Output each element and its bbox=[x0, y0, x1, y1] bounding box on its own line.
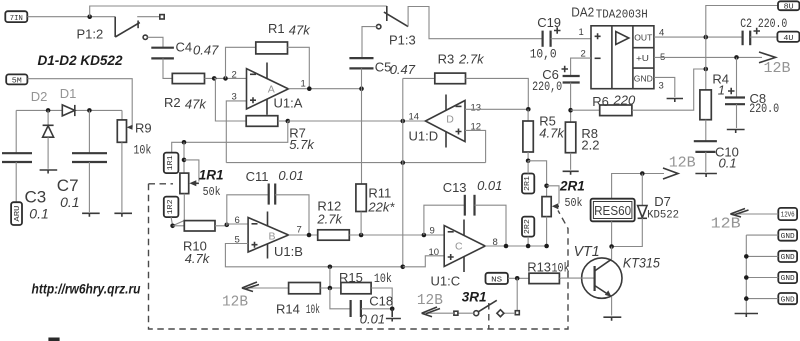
svg-text:0.47: 0.47 bbox=[193, 43, 219, 58]
ground DA2 pin3 bbox=[667, 99, 683, 103]
svg-text:10k: 10k bbox=[133, 143, 151, 158]
svg-text:1R1: 1R1 bbox=[199, 168, 224, 183]
bias rail pin3-pin12 bbox=[226, 162, 485, 164]
connector 5M bbox=[6, 74, 27, 85]
resistor R3 bbox=[403, 73, 529, 109]
svg-text:4.7k: 4.7k bbox=[185, 251, 211, 266]
wire D1 node rail bbox=[16, 109, 62, 111]
svg-text:DA2: DA2 bbox=[571, 5, 594, 20]
svg-text:12В: 12В bbox=[417, 292, 443, 309]
capacitor C13 bbox=[424, 195, 506, 246]
connector 2R2 bbox=[522, 217, 534, 237]
resistor R5 bbox=[523, 109, 533, 161]
resistor R13 bbox=[529, 273, 561, 283]
svg-text:R11: R11 bbox=[368, 186, 391, 201]
polarity + (C8) bbox=[728, 88, 735, 94]
wire pin2 to R7 bbox=[214, 78, 246, 121]
capacitor C8 bbox=[725, 57, 745, 128]
svg-text:12В: 12В bbox=[764, 60, 791, 77]
connector GND 3 bbox=[778, 272, 797, 283]
node pin13 R5 bbox=[526, 107, 531, 112]
svg-text:GND: GND bbox=[781, 233, 795, 241]
svg-text:U1:D: U1:D bbox=[409, 129, 439, 144]
svg-text:10k: 10k bbox=[552, 262, 570, 276]
svg-text:6: 6 bbox=[235, 215, 240, 226]
svg-text:R9: R9 bbox=[135, 121, 152, 136]
resistor R2 bbox=[172, 73, 246, 83]
svg-text:P1:2: P1:2 bbox=[77, 27, 104, 42]
node GND rail 3 bbox=[744, 275, 749, 280]
node U1:B out C11 bbox=[307, 233, 312, 238]
wire 8U rail bbox=[706, 6, 778, 90]
svg-text:1: 1 bbox=[718, 83, 725, 98]
wire pot bottom to R10 bbox=[173, 194, 185, 226]
resistor R7 bbox=[246, 116, 288, 127]
svg-text:5M: 5M bbox=[12, 78, 22, 86]
wire 1R2 to R10 node bbox=[171, 217, 173, 226]
op-amp U1:A bbox=[247, 63, 289, 115]
wire R5 to pot 2R1 bbox=[528, 161, 547, 197]
svg-text:1: 1 bbox=[579, 27, 584, 38]
ground under R8 bbox=[563, 171, 579, 175]
svg-text:9: 9 bbox=[430, 226, 435, 237]
potentiometer 1R1 bbox=[180, 173, 199, 194]
connector 12V6 bbox=[778, 208, 797, 220]
svg-text:2R2: 2R2 bbox=[524, 219, 532, 234]
connector ARU bbox=[11, 202, 22, 225]
wire pin6 bbox=[227, 223, 248, 225]
svg-text:3: 3 bbox=[659, 81, 664, 92]
svg-text:50k: 50k bbox=[565, 196, 583, 210]
svg-text:R1: R1 bbox=[268, 21, 285, 36]
svg-text:2.2: 2.2 bbox=[581, 138, 599, 153]
svg-text:C11: C11 bbox=[246, 169, 269, 184]
node out pot2R1 bbox=[544, 244, 549, 249]
wire R13 node to jack bbox=[516, 278, 518, 310]
svg-text:U1:A: U1:A bbox=[274, 96, 303, 111]
svg-text:R6: R6 bbox=[592, 94, 609, 109]
svg-text:C4: C4 bbox=[176, 40, 193, 55]
node D7 top bbox=[640, 171, 645, 176]
svg-text:D7: D7 bbox=[654, 194, 671, 209]
wire P1:2 to C4 bbox=[148, 37, 164, 47]
svg-text:14: 14 bbox=[409, 112, 420, 123]
svg-text:0.01: 0.01 bbox=[360, 312, 385, 327]
wire pin13 to R5 bbox=[465, 108, 528, 110]
node R14/R15 bbox=[328, 286, 333, 291]
capacitor C11 bbox=[227, 184, 309, 236]
connector GND 1 bbox=[778, 230, 797, 241]
svg-text:220.0: 220.0 bbox=[749, 102, 779, 116]
svg-text:0.1: 0.1 bbox=[29, 206, 48, 222]
node pin6 bbox=[225, 223, 230, 228]
wire P1:3 contact to C5 bbox=[362, 27, 377, 58]
svg-text:3: 3 bbox=[232, 92, 237, 103]
arrow 12V to R14 bbox=[242, 282, 289, 292]
arrow 12V (RES60 rail) bbox=[663, 168, 678, 179]
svg-text:C: C bbox=[455, 241, 463, 253]
node R13 left bbox=[515, 276, 520, 281]
node pin2 left bbox=[212, 76, 217, 81]
ground under C10 bbox=[695, 174, 717, 178]
svg-text:ARU: ARU bbox=[14, 206, 22, 222]
resistor R10 bbox=[173, 221, 227, 231]
resistor R15 bbox=[341, 283, 392, 309]
connector 1R1 bbox=[164, 153, 179, 174]
svg-text:47k: 47k bbox=[289, 23, 311, 38]
svg-text:B: B bbox=[269, 231, 276, 243]
IC DA2 TDA2003H bbox=[591, 26, 654, 89]
svg-text:2: 2 bbox=[232, 70, 237, 81]
wire pin3 GND bbox=[654, 77, 675, 97]
svg-text:RES60: RES60 bbox=[594, 204, 631, 218]
svg-text:GND: GND bbox=[781, 275, 795, 283]
svg-text:A: A bbox=[268, 84, 275, 96]
svg-text:12V6: 12V6 bbox=[781, 212, 795, 220]
svg-text:R14: R14 bbox=[276, 302, 300, 317]
svg-text:1: 1 bbox=[301, 79, 306, 90]
node C6 R6 bbox=[568, 108, 573, 113]
switch P1:3 bbox=[377, 6, 409, 29]
connector 2R1 bbox=[522, 174, 534, 194]
svg-text:+U: +U bbox=[636, 53, 649, 63]
svg-text:R2: R2 bbox=[164, 95, 181, 110]
resistor R14 bbox=[289, 283, 321, 294]
node C18 right bbox=[390, 307, 395, 312]
svg-text:D1-D2 KD522: D1-D2 KD522 bbox=[38, 53, 123, 68]
ground under D2 bbox=[40, 170, 58, 174]
wire NS to R13 bbox=[508, 277, 529, 279]
node U1:A output R1 bbox=[307, 86, 312, 91]
wire R7 down to 1R1 rail bbox=[172, 121, 288, 153]
capacitor C10 bbox=[694, 141, 717, 172]
diode D1 bbox=[62, 105, 75, 116]
node GND rail 4 bbox=[744, 296, 749, 301]
dashed block border bbox=[149, 184, 569, 329]
connector 1R2 bbox=[164, 197, 179, 218]
svg-text:13: 13 bbox=[471, 103, 482, 114]
svg-text:C3: C3 bbox=[25, 188, 47, 207]
svg-text:5.7k: 5.7k bbox=[289, 137, 315, 152]
svg-text:GND: GND bbox=[781, 254, 795, 262]
svg-text:2.7k: 2.7k bbox=[458, 52, 485, 67]
arrow 12V (12V6) bbox=[730, 209, 778, 218]
op-amp U1:C bbox=[444, 220, 485, 273]
svg-text:8U: 8U bbox=[784, 4, 794, 12]
wire R5 to 2R1 box bbox=[527, 161, 529, 174]
resistor R6 bbox=[571, 69, 706, 116]
node 1R1 top bbox=[182, 140, 187, 145]
node R12 right R11 bbox=[359, 233, 364, 238]
svg-text:U1:B: U1:B bbox=[274, 244, 303, 259]
svg-text:GND: GND bbox=[781, 296, 795, 304]
svg-text:D1: D1 bbox=[60, 86, 77, 101]
svg-text:TDA2003H: TDA2003H bbox=[596, 8, 648, 22]
wire U1:C output rail bbox=[485, 245, 546, 247]
wire pot 2R1 to out rail bbox=[546, 217, 548, 246]
capacitor C4 bbox=[151, 48, 174, 59]
op-amp U1:B bbox=[248, 212, 288, 259]
capacitor C6 bbox=[563, 76, 580, 122]
connector 7IN bbox=[5, 11, 27, 23]
svg-text:12В: 12В bbox=[222, 294, 248, 311]
svg-text:P1:3: P1:3 bbox=[389, 33, 416, 48]
svg-text:12В: 12В bbox=[711, 216, 741, 233]
arrow 12V (+U) bbox=[759, 52, 776, 63]
connector 8U bbox=[778, 1, 799, 11]
svg-text:0.01: 0.01 bbox=[477, 178, 502, 193]
capacitor C18 bbox=[330, 288, 392, 317]
svg-text:4U: 4U bbox=[783, 35, 793, 43]
resistor R1 bbox=[226, 42, 310, 89]
node out C13 bbox=[504, 244, 509, 249]
wire U1:A output bbox=[288, 88, 361, 90]
wire pin2 to C6 bbox=[571, 58, 591, 76]
svg-text:0.1: 0.1 bbox=[719, 156, 737, 171]
capacitor C19 bbox=[543, 31, 591, 47]
op-amp U1:D bbox=[425, 95, 465, 148]
connector GND 2 bbox=[778, 251, 797, 262]
svg-text:R15: R15 bbox=[339, 270, 363, 285]
connector GND 4 bbox=[778, 293, 797, 304]
wire 7IN to P1:2 bbox=[27, 16, 115, 18]
svg-text:OUT: OUT bbox=[634, 33, 652, 43]
wire R14 tap down bbox=[329, 267, 331, 288]
connector NS bbox=[486, 273, 508, 285]
svg-text:C7: C7 bbox=[57, 176, 79, 195]
ground under C18 bbox=[386, 309, 401, 322]
svg-text:VT1: VT1 bbox=[574, 243, 600, 260]
svg-text:12В: 12В bbox=[669, 155, 696, 172]
svg-text:0.01: 0.01 bbox=[278, 168, 303, 183]
svg-text:7IN: 7IN bbox=[10, 15, 23, 23]
svg-text:KT315: KT315 bbox=[623, 256, 660, 271]
wire pin5 to bias rail2 bbox=[225, 244, 402, 267]
svg-text:C18: C18 bbox=[369, 294, 393, 309]
wire pin12 to bias rail bbox=[465, 130, 486, 162]
wire pin10 jog bbox=[403, 256, 444, 267]
svg-text:NS: NS bbox=[491, 277, 502, 285]
resistor R4 bbox=[700, 90, 711, 141]
wire vertical x403 bbox=[402, 78, 404, 266]
svg-text:2.7k: 2.7k bbox=[316, 212, 343, 227]
capacitor C7 bbox=[72, 110, 107, 212]
node pin2 right bbox=[223, 76, 228, 81]
svg-text:22k*: 22k* bbox=[367, 200, 395, 215]
svg-text:1R2: 1R2 bbox=[167, 199, 175, 214]
node bias rail x403 bbox=[401, 160, 406, 165]
node pot 1R1 wiper tap bbox=[182, 158, 187, 163]
potentiometer 2R1 bbox=[542, 197, 559, 217]
wire R14-R15 bbox=[320, 287, 341, 289]
svg-text:0.47: 0.47 bbox=[390, 62, 416, 77]
svg-text:2R1: 2R1 bbox=[559, 179, 585, 194]
node R14 rail tap bbox=[328, 265, 333, 270]
diode D2 bbox=[43, 110, 54, 168]
resistor R12 bbox=[318, 230, 445, 240]
resistor R8 bbox=[565, 122, 575, 170]
polarity + (C6) bbox=[562, 66, 569, 72]
ground under C7 bbox=[82, 213, 100, 217]
wire pin3 to bias rail bbox=[226, 101, 246, 163]
svg-text:KD522: KD522 bbox=[647, 210, 679, 222]
wire 1R1 pot top bbox=[183, 142, 185, 173]
ground under C8 bbox=[727, 130, 745, 134]
node D2 junction bbox=[46, 108, 51, 113]
svg-text:U1:C: U1:C bbox=[431, 274, 461, 289]
node pin9 C13 tap bbox=[422, 233, 427, 238]
wire GND rail bbox=[746, 235, 778, 313]
transistor VT1 bbox=[561, 247, 622, 316]
svg-text:R3: R3 bbox=[438, 52, 455, 67]
ground GND rail bbox=[735, 314, 758, 318]
connector 4U bbox=[777, 32, 799, 43]
svg-text:4.7k: 4.7k bbox=[539, 126, 565, 141]
svg-text:0.1: 0.1 bbox=[60, 194, 79, 210]
capacitor C5 bbox=[349, 58, 373, 89]
switch 3R1 bbox=[454, 300, 519, 316]
wire 5M to R9 wiper bbox=[27, 79, 132, 128]
diode D7 bbox=[612, 174, 647, 247]
node top rail junction bbox=[87, 14, 92, 19]
wire R7 to U1:D pin14 bbox=[288, 120, 426, 122]
node +U C8 bbox=[734, 55, 739, 60]
node C7 junction bbox=[87, 108, 92, 113]
wire pin5 +U bbox=[654, 56, 762, 58]
node collector bbox=[609, 244, 614, 249]
wire 1R1 wiper bbox=[184, 160, 199, 182]
node bias rail2 x403 bbox=[401, 265, 406, 270]
ground under R9 bbox=[114, 213, 132, 217]
svg-text:GND: GND bbox=[634, 73, 653, 83]
wire C4 to R2 bbox=[163, 58, 172, 78]
svg-text:7: 7 bbox=[297, 225, 302, 236]
capacitor C3 bbox=[2, 110, 32, 202]
switch P1:2 bbox=[115, 15, 164, 40]
wire P1:3 to C19 bbox=[408, 7, 542, 39]
wire 2R2 to out rail bbox=[527, 237, 529, 246]
svg-text:50k: 50k bbox=[203, 185, 221, 199]
artifact mark bottom-left bbox=[48, 338, 59, 341]
svg-text:10k: 10k bbox=[306, 303, 320, 317]
svg-text:10,0: 10,0 bbox=[530, 48, 557, 62]
svg-text:10k: 10k bbox=[374, 272, 392, 286]
node R6 top tap bbox=[704, 67, 709, 72]
node R5 bottom bbox=[526, 159, 531, 164]
ground under VT1 emitter bbox=[603, 317, 621, 321]
relay RES60 bbox=[591, 199, 635, 222]
node pot 2R1 top bbox=[544, 184, 549, 189]
resistor R11 bbox=[356, 184, 366, 235]
svg-text:D2: D2 bbox=[31, 89, 48, 104]
wire pin4 OUT bbox=[654, 36, 742, 38]
node R10 left bbox=[170, 224, 175, 229]
capacitor C2 bbox=[743, 31, 778, 46]
wire RES60 to collector node bbox=[611, 221, 613, 246]
resistor R9 bbox=[117, 110, 132, 212]
node out 2R2 bbox=[526, 244, 531, 249]
svg-text:http://rw6hry.qrz.ru: http://rw6hry.qrz.ru bbox=[32, 282, 142, 297]
node GND rail 2 bbox=[744, 254, 749, 259]
svg-text:47k: 47k bbox=[185, 97, 207, 112]
svg-text:1R1: 1R1 bbox=[167, 155, 175, 170]
polarity + (C2) bbox=[754, 28, 761, 34]
svg-text:3R1: 3R1 bbox=[462, 290, 487, 305]
polarity + (C19) bbox=[554, 27, 561, 33]
node U1:A output C5 bbox=[359, 86, 364, 91]
svg-text:2R1: 2R1 bbox=[524, 176, 532, 191]
node pin4 rail bbox=[704, 35, 709, 40]
svg-text:C2 220.0: C2 220.0 bbox=[740, 17, 787, 31]
wire C5 down to R11 bbox=[361, 89, 363, 184]
svg-text:R13: R13 bbox=[527, 260, 551, 275]
arrow 12V (3R1) bbox=[422, 307, 454, 317]
svg-text:220: 220 bbox=[613, 93, 636, 108]
node pin14 bbox=[401, 119, 406, 124]
wire U1:B out rail bbox=[289, 234, 318, 236]
wire RES60 rail bbox=[612, 174, 664, 199]
svg-text:C13: C13 bbox=[443, 180, 467, 195]
wire 2R1 wiper bbox=[547, 186, 559, 204]
svg-text:10: 10 bbox=[429, 247, 440, 258]
svg-text:D: D bbox=[446, 114, 454, 126]
node R7 right bbox=[286, 119, 291, 124]
wire top rail bbox=[90, 6, 387, 17]
svg-text:220,0: 220,0 bbox=[532, 80, 562, 94]
